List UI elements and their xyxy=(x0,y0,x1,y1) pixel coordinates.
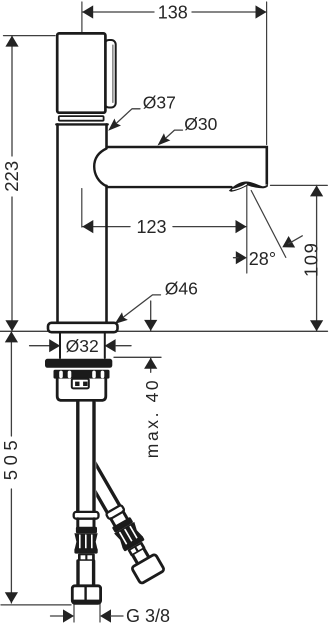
dimension line 123 xyxy=(82,226,130,228)
clip xyxy=(72,379,89,389)
max40 extension line lower xyxy=(114,356,161,358)
svg-text:109: 109 xyxy=(300,242,321,277)
collar ring xyxy=(59,116,104,121)
dimension line 505 xyxy=(10,331,12,436)
extension line outlet level (109) xyxy=(271,184,328,186)
dimension line 223 xyxy=(11,36,13,156)
max40 dimension lower xyxy=(150,358,152,373)
washer bar xyxy=(45,359,112,368)
outlet vertical line (28 deg ref) xyxy=(246,186,248,273)
bracket box xyxy=(57,379,106,401)
diagonal end nut xyxy=(131,554,164,584)
centerline above handle xyxy=(81,2,83,42)
arrow 28deg at vertical xyxy=(236,251,247,264)
hose neck xyxy=(76,519,79,528)
arrow 123 right xyxy=(236,220,247,233)
leader D30 xyxy=(160,130,183,143)
dimension D32 xyxy=(30,345,50,347)
diagonal neck 2 xyxy=(133,555,138,564)
arrow 109 down xyxy=(310,320,323,331)
crimp B xyxy=(74,548,97,553)
column right edge upper xyxy=(105,124,108,147)
svg-text:Ø32: Ø32 xyxy=(66,336,99,356)
max40 dimension upper xyxy=(150,301,152,331)
vertical hose walls xyxy=(76,402,79,513)
centerline segment (123) xyxy=(81,189,83,227)
crimp A xyxy=(76,527,97,533)
svg-text:138: 138 xyxy=(158,2,188,22)
arrow 505 down xyxy=(5,592,18,603)
hose ferrule xyxy=(74,512,99,519)
diagonal crimp B xyxy=(122,535,145,551)
lever inner line xyxy=(112,45,114,103)
diagonal hose wall left xyxy=(79,464,108,513)
water stream line (28 deg) xyxy=(251,191,286,258)
body-spout intersection curve xyxy=(94,149,106,187)
mounting plane line right xyxy=(118,330,328,332)
leader D46 xyxy=(118,295,161,322)
arrow 223 up xyxy=(5,36,18,47)
dimension G3/8 xyxy=(73,603,75,622)
svg-text:123: 123 xyxy=(136,217,166,237)
arrow 123 left xyxy=(82,220,93,233)
lower hose xyxy=(76,561,96,586)
arrow 109 up xyxy=(310,185,323,196)
arrow 138 left xyxy=(82,5,93,18)
hex nut G3/8 xyxy=(72,586,100,604)
vertical hose mask xyxy=(76,402,96,513)
aerator lip xyxy=(229,181,268,191)
diagonal hose ferrule ring xyxy=(106,505,125,520)
svg-text:max. 40: max. 40 xyxy=(142,378,162,458)
arrow 505 up xyxy=(5,331,18,342)
handle body xyxy=(57,33,105,112)
dimension line 138 xyxy=(82,11,154,13)
column top edge xyxy=(56,123,107,125)
column right edge lower xyxy=(105,186,108,325)
svg-text:28°: 28° xyxy=(249,249,276,269)
svg-text:Ø37: Ø37 xyxy=(143,93,176,113)
flexible hose diagonal xyxy=(70,448,164,584)
leader D37 xyxy=(111,109,140,128)
spout top edge xyxy=(107,147,267,185)
svg-text:G 3/8: G 3/8 xyxy=(126,606,170,626)
svg-text:223: 223 xyxy=(1,161,22,192)
extension line bottom (505) xyxy=(1,604,71,606)
arrow 223 down xyxy=(5,320,18,331)
svg-text:Ø30: Ø30 xyxy=(184,114,217,134)
clip with windows xyxy=(78,554,95,561)
svg-text:Ø46: Ø46 xyxy=(165,278,198,298)
diagonal clip windows xyxy=(127,542,145,557)
shaft D32 right xyxy=(104,332,106,358)
spout bottom edge xyxy=(107,186,232,188)
svg-text:505: 505 xyxy=(0,436,21,480)
column left edge xyxy=(56,124,59,325)
arrow 28deg at stream xyxy=(279,236,295,253)
mounting plane line left xyxy=(0,330,48,332)
diagonal knurl xyxy=(114,522,143,548)
knurled nut xyxy=(54,370,110,379)
shaft D32 left xyxy=(59,332,61,358)
diagonal hose wall right xyxy=(88,451,120,506)
base flange xyxy=(48,323,118,332)
knurl section xyxy=(74,533,97,550)
extension line handle top (223) xyxy=(4,35,56,37)
dimension line 109 xyxy=(316,185,318,331)
arrow 138 right xyxy=(256,5,267,18)
diagonal hose neck xyxy=(111,519,115,526)
diagonal crimp A xyxy=(112,517,134,533)
lever pin xyxy=(105,40,116,108)
extension line spout tip (138 right) xyxy=(266,2,268,145)
